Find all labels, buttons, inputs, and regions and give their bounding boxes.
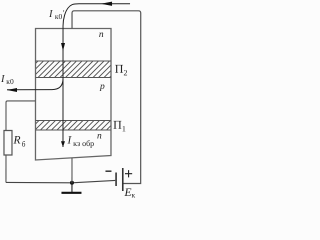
svg-text:n: n [99,30,104,40]
svg-text:П2: П2 [115,62,128,78]
svg-text:к: к [131,191,135,199]
svg-text:E: E [123,187,131,199]
svg-text:I: I [0,74,5,85]
wire: base lead (box left to Rb) [6,101,36,131]
junction P2 hatched band [36,61,112,78]
svg-text:p: p [99,82,105,92]
svg-text:б: б [22,139,26,148]
battery Ek: negative short bar [115,173,117,187]
svg-text:к0: к0 [55,12,63,21]
label plus [125,170,132,177]
svg-text:П1: П1 [113,118,126,134]
junction node dot [70,181,74,185]
current path Ik0' : top line with left arrow, curve into collector, down arrow [61,2,130,147]
svg-text:I: I [48,9,53,20]
wire: battery negative to ground node and Rb (bottom) [6,180,115,182]
svg-text:кз обр: кз обр [73,139,94,148]
current branch Ik0: curve from centre wire, line out left with arrow [7,78,63,92]
resistor Rb [4,130,12,155]
svg-text:R: R [12,134,20,146]
junction P1 hatched band [35,120,111,130]
current arrow Ikz obr (down arrow below P1) [61,141,65,147]
wire: collector lead to battery (top and right side) [72,11,141,184]
semiconductor body outline [35,28,111,160]
wire: emitter lead (box bottom to ground node) [71,158,73,183]
svg-text:n: n [97,132,102,142]
svg-text:к0: к0 [6,77,14,86]
battery Ek: positive long bar [122,168,124,191]
wire: Rb to bottom wire [5,155,7,183]
svg-text:I: I [66,134,72,146]
label minus [105,171,111,172]
ground [71,183,73,192]
